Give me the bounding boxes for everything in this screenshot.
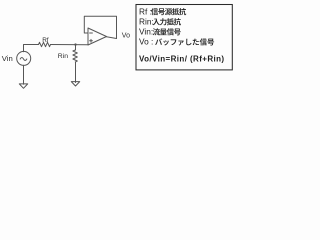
wire Rf to op-amp input xyxy=(51,44,89,46)
svg-text:Rf: Rf xyxy=(42,37,49,44)
legend line 3 text: flow signal xyxy=(153,28,160,35)
legend line 1 text: signal source resistance xyxy=(151,8,158,15)
source Vin (AC signal source) xyxy=(17,51,31,65)
legend box frame xyxy=(136,5,232,70)
legend line 4 text: buffered signal xyxy=(155,38,162,45)
node junction (Rf / Rin / op-amp) xyxy=(74,43,76,45)
svg-text:Vo :: Vo : xyxy=(139,37,153,47)
wire feedback loop (output to inverting input) xyxy=(84,16,116,38)
wire junction to Rin xyxy=(75,45,77,50)
op-amp non-inverting input mark (+) xyxy=(90,39,93,42)
wire op-amp output to node Vo xyxy=(107,37,117,39)
op-amp inverting input mark (-) xyxy=(90,32,93,34)
ground (Vin) xyxy=(19,84,27,88)
resistor Rin xyxy=(73,50,77,62)
op-amp U1 xyxy=(88,28,107,45)
ground (Rin) xyxy=(71,82,79,86)
svg-text:Vin: Vin xyxy=(2,54,13,63)
svg-text:Rin:: Rin: xyxy=(139,17,154,27)
svg-text:Vo: Vo xyxy=(122,32,130,39)
svg-text:Vin:: Vin: xyxy=(139,27,153,37)
resistor Rf xyxy=(39,42,51,46)
wire Vin bottom to ground xyxy=(23,65,25,84)
svg-text:Rf :: Rf : xyxy=(139,6,152,16)
svg-text:Vo/Vin=Rin/ (Rf+Rin): Vo/Vin=Rin/ (Rf+Rin) xyxy=(139,55,224,64)
svg-text:Rin: Rin xyxy=(58,53,68,60)
wire Vin top to Rf xyxy=(24,45,39,52)
legend line 2 text: input resistance xyxy=(153,19,160,26)
wire Rin to ground xyxy=(75,62,77,83)
